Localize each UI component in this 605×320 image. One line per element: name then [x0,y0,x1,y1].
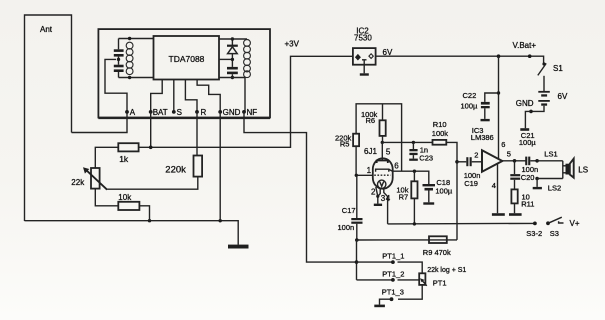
node V.Bat+ [513,41,537,58]
wire ground bus (bottom left) [25,221,239,245]
svg-text:S1: S1 [553,64,563,73]
svg-text:C19: C19 [464,179,478,188]
svg-text:C20: C20 [521,173,535,182]
resistor R9 470k [423,236,451,256]
wire R5/R6 top frame [356,104,402,171]
svg-text:2: 2 [371,188,376,197]
node junction 10k/ground bus [148,219,151,222]
capacitor C20 100n [510,161,538,190]
tube filament heater [378,180,386,188]
node output junction [513,159,517,163]
wire right tank top rail [219,38,247,40]
capacitor C21 100u [519,131,537,165]
svg-text:6J1: 6J1 [364,147,377,156]
capacitor C19 100n [457,157,482,188]
wire 22k bottom to 10k [95,189,118,206]
svg-text:220k: 220k [165,164,186,175]
svg-text:C22: C22 [463,91,477,100]
voltage regulator IC2 7530 [353,26,376,64]
wire chip pin to R [185,80,197,112]
svg-text:PT1: PT1 [433,278,447,287]
svg-text:1: 1 [367,166,372,175]
resistor R11 10 [511,189,534,213]
node coil top [128,37,131,40]
node C17/R9/PT1 junction [355,238,359,242]
svg-text:6: 6 [394,161,399,170]
svg-text:S: S [177,108,182,117]
svg-text:A: A [130,108,136,117]
capacitor C (left tank, lower) [114,57,124,78]
capacitor trimmer C (left tank, upper) [114,39,124,57]
svg-text:4: 4 [492,181,496,190]
tube screen element (pin 6) [376,161,400,172]
capacitor C22 100u [461,91,499,119]
wire 10k right to ground bus [139,206,149,221]
node plate row / R6 [381,141,384,144]
wire left tank bottom rail [119,77,154,79]
wire LM386 pin4 to ground [497,164,499,213]
svg-text:C23: C23 [419,153,433,162]
wire PT1_1 to pot top [398,262,423,273]
wire A internal (tank tap to A) [105,59,127,112]
wire antenna to terminal A [72,112,128,133]
varactor diode D1 (right tank) [227,39,238,67]
wire rail riser to LM386 pin6 [498,56,500,159]
wire plate stem (pin 5) [382,142,391,160]
svg-text:PT1_2: PT1_2 [382,270,404,279]
svg-text:100µ: 100µ [519,138,537,147]
node mid of left tank caps [117,58,120,61]
ground (LM386 pin4) [492,213,505,216]
wire pin 2 (cathode to ground) [371,187,378,204]
svg-text:Ant: Ant [40,25,53,34]
wire LS2 to speaker [537,178,563,180]
wire heater/V+ row [388,222,535,225]
svg-text:GND: GND [223,108,241,117]
node NF/PT1_1 junction [355,260,359,264]
node R7 top [413,170,416,173]
node terminal A [125,108,136,117]
svg-text:4: 4 [386,194,391,203]
resistor R7 10k [396,171,417,224]
svg-text:R9 470k: R9 470k [423,248,451,257]
wire IC2 ground stem [363,65,365,74]
wire screen row (pin6 to C18) [393,171,429,184]
node S3-2 contact [526,222,542,239]
node PT1_2 contact [382,270,404,282]
svg-text:BAT: BAT [153,108,168,117]
wire plate row [382,141,432,143]
capacitor C18 100u [423,178,453,202]
node grid/R5/C17 [355,174,358,177]
ground (tube cathode) [374,204,382,206]
node GND (battery return) [516,99,534,113]
resistor 1k [118,143,138,164]
potentiometer PT1 22k log + S1 [419,267,466,288]
switch S3 [546,217,563,238]
wire LS2 to ground [536,179,538,187]
node junction GND/ground bus [219,219,222,222]
ground (PT1_3) [374,305,385,308]
node C19 tap on riser [455,160,459,164]
node terminal BAT [149,108,168,117]
node right tank top [231,37,234,40]
wire pin 3 [378,189,386,203]
ground (LS2) [533,187,542,189]
node PT1_3 contact [382,287,404,301]
capacitor C17 100n [338,175,363,240]
node BAT/1k junction [149,146,153,150]
node LS2 contact [535,177,561,193]
resistor R5 220k [335,134,359,149]
ground (C23) [409,159,418,161]
node right tank bottom [231,76,234,79]
ground (C18) [423,202,434,204]
svg-text:GND: GND [516,99,534,108]
wire LM386 output [502,160,526,162]
svg-text:+3V: +3V [285,40,300,49]
TDA7088 module outer box [98,29,270,117]
wire 22k wiper row to 220k bottom [107,177,198,190]
node pins 2+3 [376,195,379,198]
wire PT1_2 row [357,279,393,281]
wire NF terminal to PT1_1 row [244,112,357,262]
antenna Ant (frame loop) [25,15,72,221]
svg-text:R7: R7 [399,193,409,202]
svg-text:R6: R6 [366,116,376,125]
svg-text:S3-2: S3-2 [526,229,542,238]
node terminal NF [242,108,257,117]
node PT1_1 contact [382,252,404,264]
svg-text:10k: 10k [118,193,132,202]
svg-text:R: R [201,108,207,117]
svg-text:LS1: LS1 [544,149,557,158]
node rail/C22 branch [497,54,501,58]
svg-text:100µ: 100µ [435,186,453,195]
svg-text:TDA7088: TDA7088 [169,54,205,64]
svg-text:NF: NF [247,108,258,117]
svg-text:C17: C17 [342,206,356,215]
inductor L1 (left tank coil) [126,42,133,74]
inductor L2 (right tank coil) [244,40,251,78]
node R7 bottom on V+ row [413,222,416,225]
wire R terminal down to 220k [196,112,198,156]
wire 1k row to +3V riser [139,56,353,147]
wire GND node to ground [525,111,531,128]
wire right tank bottom rail to NF [219,78,245,112]
wire chip to varactor tap [219,58,231,60]
ground (C22) [481,119,490,121]
svg-text:1k: 1k [119,154,129,164]
svg-text:7530: 7530 [354,33,372,42]
wire GND terminal down to ground bus [219,112,221,221]
wire 6V rail [376,56,544,63]
svg-text:6V: 6V [558,92,568,101]
wire R9 row [357,239,457,241]
battery 6V [538,92,568,106]
resistor 220k (tuning) [165,156,202,177]
svg-text:PT1_3: PT1_3 [382,287,404,296]
svg-text:100k: 100k [432,129,449,138]
capacitor C23 1n [409,142,433,162]
wire left tank top rail [119,38,154,40]
wire R5 bottom to grid node [355,146,357,175]
speaker LS [563,159,588,179]
svg-text:100n: 100n [338,223,355,232]
wire chip pin to GND [197,80,220,112]
node C23 tap [412,141,415,144]
svg-text:100µ: 100µ [461,101,479,110]
wire grid to R5/C17 node [356,174,373,176]
wire PT1_3 to ground [380,299,392,304]
wire LS1 to speaker [537,160,563,162]
wire PT1_2 to pot wiper [398,279,420,281]
tube plate (anode bar) [377,161,388,164]
svg-text:V.Bat+: V.Bat+ [513,41,537,50]
wire 1k left to 22k pot top [95,147,118,168]
svg-text:R5: R5 [340,140,350,149]
wire chip pin to S [173,80,175,112]
ground (main, TDA GND) [228,245,249,249]
node coil bottom [128,76,131,79]
tube grid (dashed, pin 1) [367,166,391,175]
svg-text:22k: 22k [71,178,85,187]
wire battery minus to GND node [531,106,544,112]
ground (IC2) [360,73,369,75]
svg-text:LM386: LM386 [471,133,494,142]
resistor 10k [118,193,139,210]
wire PT1 left rail [356,240,358,280]
wire PT1_1 row [357,261,393,263]
resistor R10 100k [432,120,449,145]
svg-text:R11: R11 [521,200,534,209]
node terminal S [172,108,182,117]
svg-text:5: 5 [386,148,391,157]
svg-text:V+: V+ [570,219,580,228]
svg-text:5: 5 [507,149,511,158]
resistor R6 100k [361,104,386,143]
node C22 tap [497,91,500,94]
potentiometer 22k [71,167,107,190]
svg-text:6: 6 [501,140,505,149]
ground (battery GND) [520,128,529,131]
wire chip pin to BAT [151,80,163,112]
capacitor (right tank, below varactor) [227,67,238,78]
node terminal R [195,108,206,117]
svg-text:S3: S3 [550,229,559,238]
switch S1 [538,62,564,91]
svg-text:22k log + S1: 22k log + S1 [427,267,466,274]
wire R10 right / riser to R9 [446,142,457,240]
node LS1 contact [535,149,557,162]
wire pot bottom to PT1_3 [398,285,422,299]
svg-text:LS2: LS2 [548,183,561,192]
svg-text:R10: R10 [433,120,447,129]
svg-text:2: 2 [474,151,478,160]
svg-text:LS: LS [578,165,588,174]
op-amp IC3 LM386 [471,126,511,190]
svg-text:PT1_1: PT1_1 [382,252,404,261]
node terminal GND [218,108,240,117]
IC TDA7088 [154,36,220,80]
ground (R11) [509,213,522,216]
tube 6J1 envelope [364,147,393,189]
wire pin 4 heater to V+ row [384,189,391,224]
wire BAT down to 1k row [150,112,152,147]
node varactor mid tap [231,58,234,61]
